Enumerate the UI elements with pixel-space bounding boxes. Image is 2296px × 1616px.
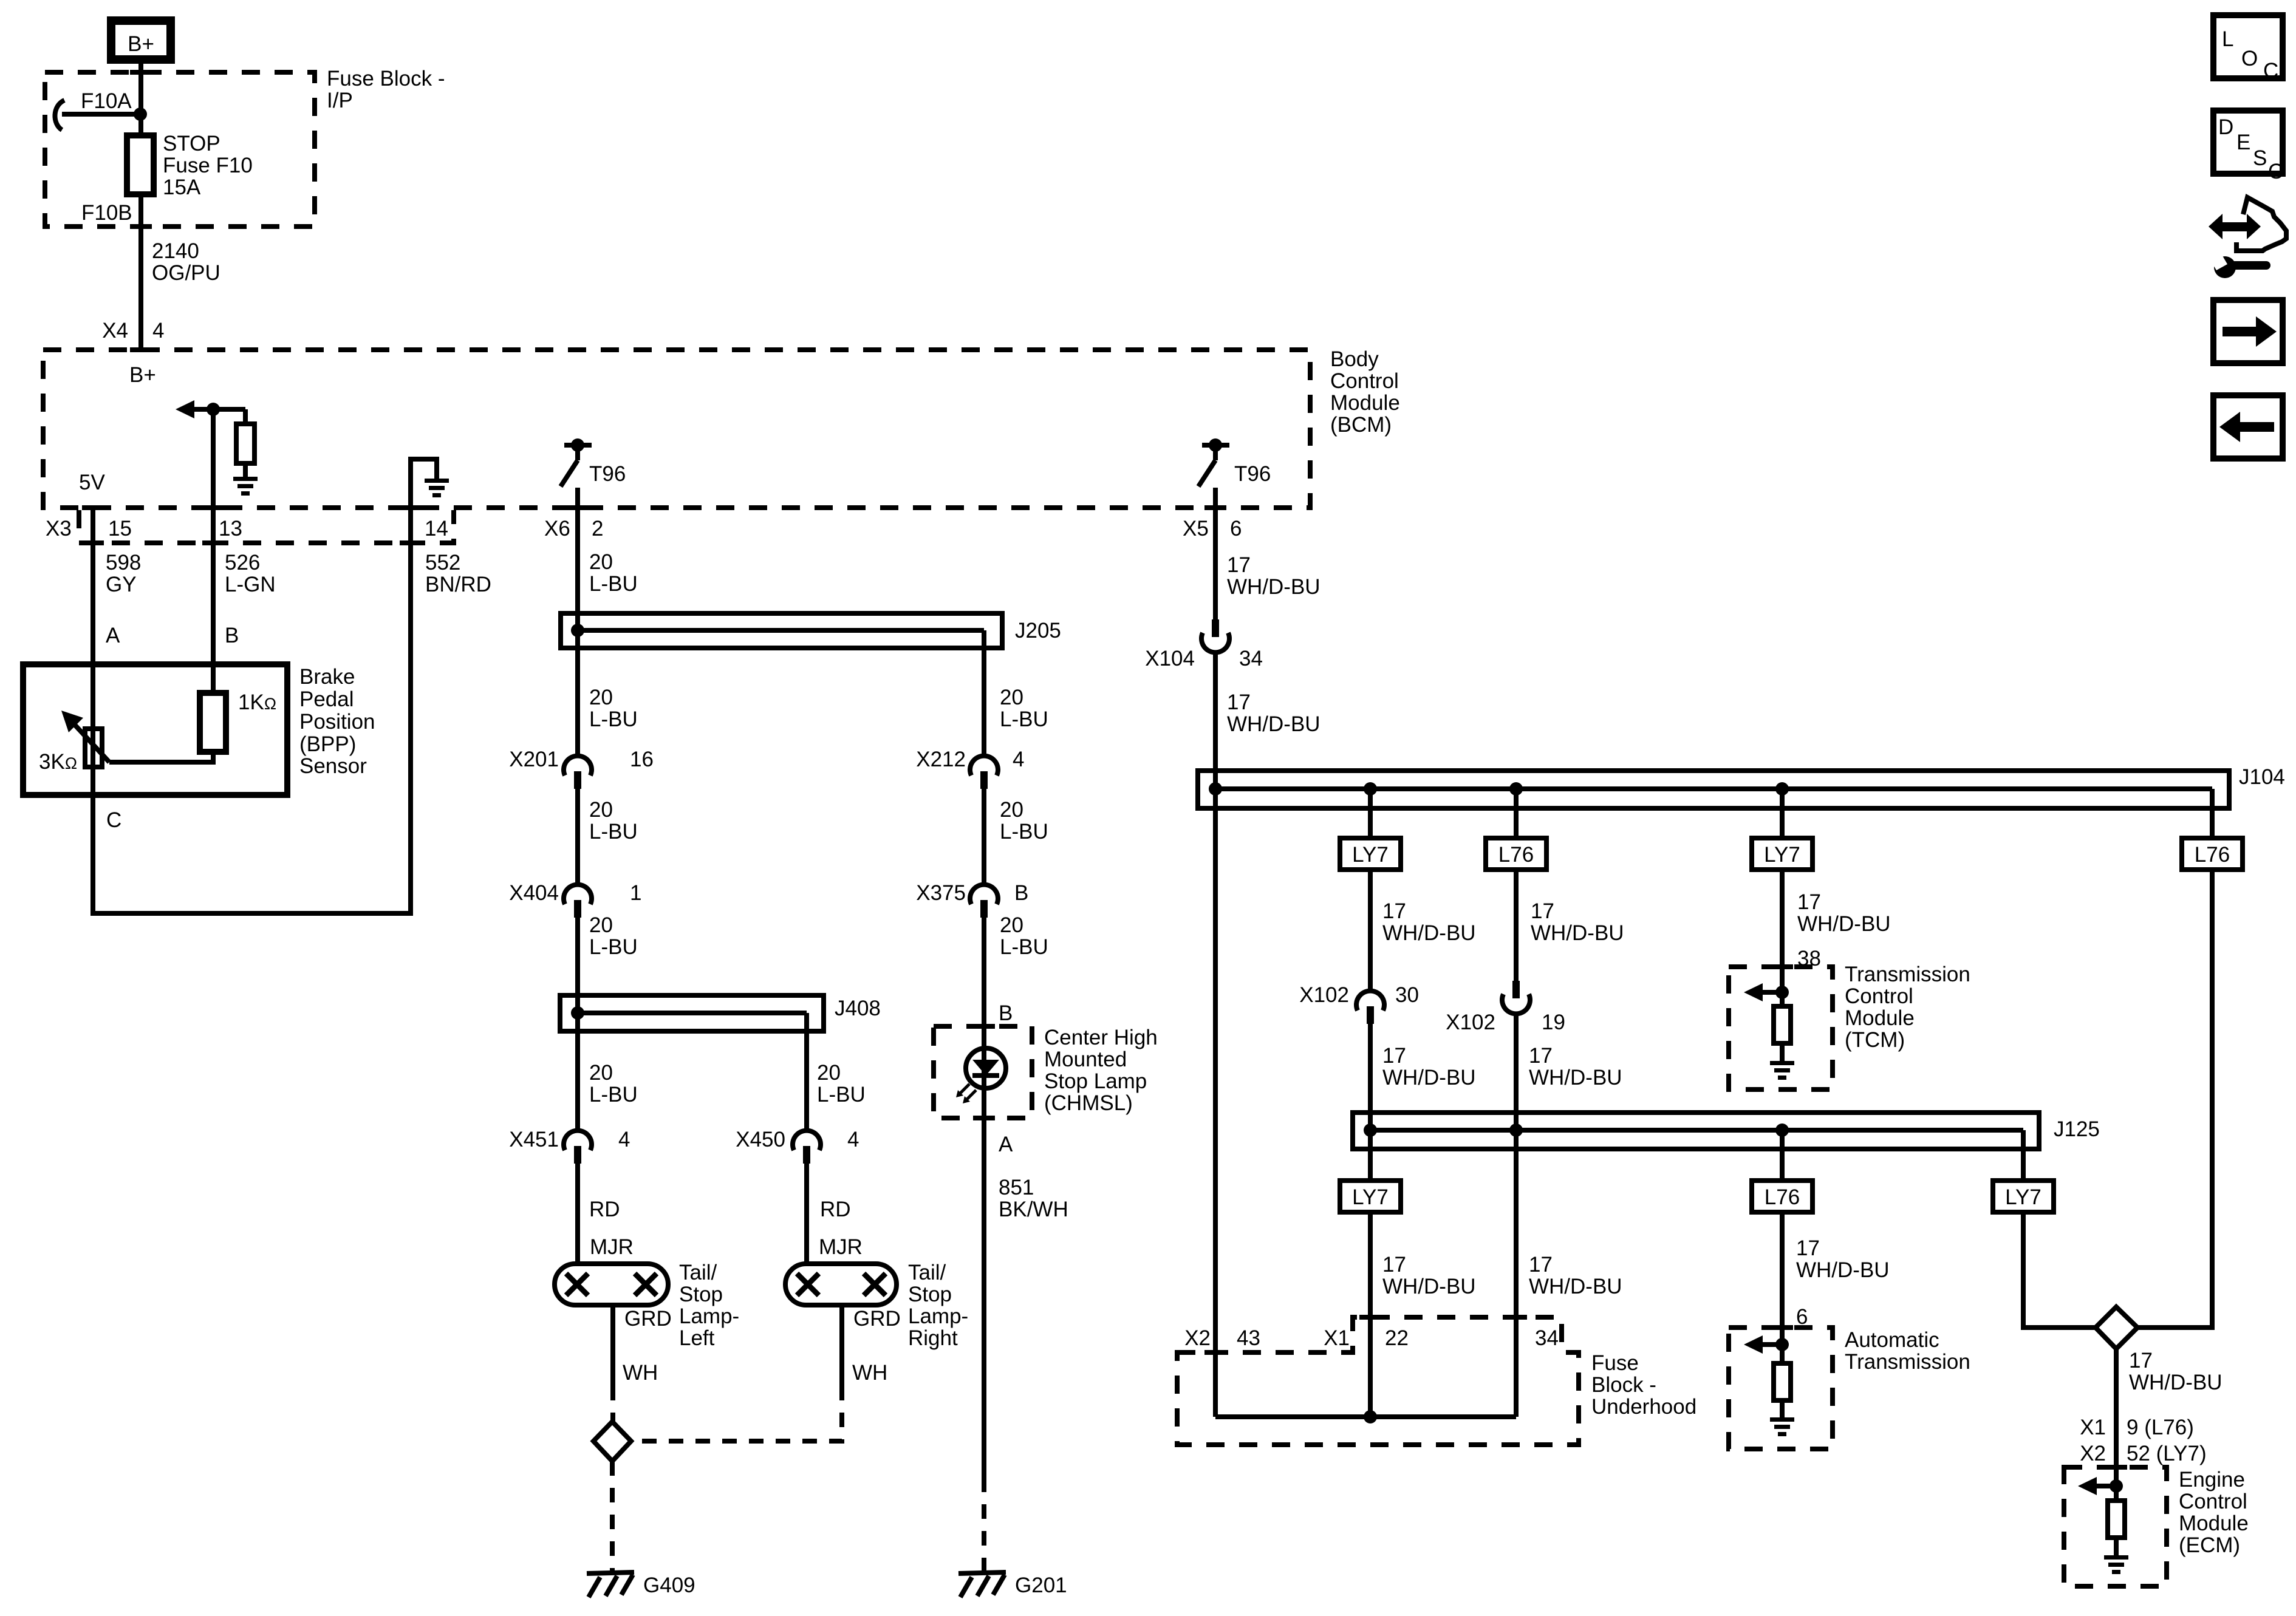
svg-text:J205: J205 [1015,619,1061,643]
splice pack J408 [560,995,824,1031]
junction inside automatic transmission [1775,1338,1789,1351]
label Fuse Block - I/P [327,67,445,112]
connector X3 dashed bracket [79,510,454,543]
wire label 17 WH/D-BU [1797,890,1891,936]
wire label 598 GY [106,551,141,596]
signal arrow inside ECM [2078,1477,2116,1495]
label Body Control Module (BCM) [1330,347,1400,437]
svg-text:851: 851 [999,1176,1034,1199]
svg-text:X451: X451 [509,1128,559,1151]
connector X102 pin 19 [1502,981,1530,1014]
tick dash at automatic transmission top border [1771,1325,1793,1330]
label X404 1 [509,881,641,905]
svg-text:Module: Module [2179,1512,2249,1535]
svg-text:C: C [2263,59,2278,83]
svg-text:L-GN: L-GN [225,573,276,596]
svg-text:J408: J408 [835,997,881,1020]
ground symbol inside BCM (pin13 circuit) [233,477,258,496]
label X450 4 [736,1128,859,1151]
svg-text:Center High: Center High [1044,1026,1158,1049]
connector label X1 pin 9 (L76) [2080,1416,2194,1439]
wire J125 to L76 automatic transmission [1780,1130,1785,1181]
svg-text:L-BU: L-BU [589,820,638,844]
connector X104 pin 34 [1201,619,1229,652]
connector label X6 pin 2 [544,517,603,540]
svg-text:15A: 15A [163,176,201,199]
tick dashes at BCM bottom border pins [82,505,1226,510]
wire WH left lamp ground [610,1305,615,1386]
ground symbol inside ECM [2104,1555,2128,1574]
wire diamond to ECM [2114,1349,2119,1501]
svg-text:F10B: F10B [81,201,132,225]
wire branch to other circuits (F10A feed) [62,112,140,117]
svg-text:17: 17 [1529,1253,1553,1277]
potentiometer 3K inside BPP [61,711,109,767]
connector label X5 pin 6 [1183,517,1242,540]
wire J104 to LY7 option [1368,789,1373,838]
tick dashes at fuse block underhood borders [1204,1315,1527,1355]
svg-text:X5: X5 [1183,517,1209,540]
svg-text:Engine: Engine [2179,1468,2245,1492]
svg-text:OG/PU: OG/PU [152,261,220,285]
svg-text:L-BU: L-BU [589,935,638,959]
svg-text:20: 20 [589,550,613,574]
svg-text:WH/D-BU: WH/D-BU [1529,1066,1622,1089]
DESC navigation icon box [2213,111,2283,183]
automatic transmission dashed box [1729,1328,1833,1449]
wire label 851 BK/WH [999,1176,1068,1221]
tail/stop lamp right (bulb symbol) [785,1264,897,1305]
svg-text:L76: L76 [2195,843,2230,867]
svg-text:43: 43 [1237,1326,1260,1350]
option box L76 [1486,838,1546,870]
wire X201 to X404 [575,789,580,887]
svg-text:Tail/: Tail/ [908,1261,946,1284]
svg-text:19: 19 [1542,1011,1565,1034]
svg-text:L-BU: L-BU [1000,707,1048,731]
resistor 1K inside BPP [200,693,226,752]
splice diamond G409 branch [593,1422,631,1461]
svg-text:X102: X102 [1299,983,1349,1007]
svg-text:17: 17 [1382,1044,1406,1068]
svg-text:17: 17 [1529,1044,1553,1068]
svg-text:B+: B+ [129,363,156,387]
ground symbol inside BCM (pin14 circuit) [425,479,449,497]
svg-text:Lamp-: Lamp- [908,1304,968,1328]
wire pin13 (526 L-GN) BCM to BPP resistor [211,409,216,693]
wire label 20 L-BU [1000,798,1048,844]
svg-text:Stop: Stop [908,1283,952,1306]
svg-text:Transmission: Transmission [1845,1350,1970,1374]
svg-text:(BCM): (BCM) [1330,413,1392,437]
pull-up resistor inside BCM [236,409,255,477]
svg-text:Brake: Brake [299,665,355,689]
tick dashes at X3 bracket wire crossings [82,540,422,545]
wire LY7 to X102-30 [1368,870,1373,993]
svg-text:Tail/: Tail/ [679,1261,717,1284]
svg-text:E: E [2236,131,2250,154]
svg-text:34: 34 [1535,1326,1559,1350]
svg-text:D: D [2218,115,2233,139]
connector X450 pin 4 [793,1131,821,1164]
connector label X2 pin 52 (LY7) [2080,1442,2206,1465]
resistor inside ECM [2108,1501,2125,1555]
svg-text:17: 17 [1227,690,1251,714]
wire label 17 WH/D-BU [1531,899,1624,945]
fuse block I/P dashed box [45,72,315,227]
wire label 20 L-BU below J408 left [589,1061,638,1106]
label Engine Control Module (ECM) [2179,1468,2249,1557]
svg-text:BN/RD: BN/RD [425,573,491,596]
svg-text:17: 17 [1796,1236,1820,1260]
svg-text:15: 15 [108,517,132,540]
svg-text:WH/D-BU: WH/D-BU [1227,575,1321,599]
svg-text:Fuse F10: Fuse F10 [163,154,253,177]
svg-text:LY7: LY7 [1352,843,1389,867]
svg-text:G201: G201 [1015,1573,1067,1597]
junction inside ECM [2110,1479,2123,1493]
resistor inside TCM [1774,1006,1791,1061]
wire B+ to BCM pin X4-4 [138,60,143,350]
svg-text:17: 17 [1382,899,1406,923]
svg-text:RD: RD [820,1198,851,1221]
svg-text:2140: 2140 [152,239,199,263]
svg-text:WH/D-BU: WH/D-BU [1382,1275,1476,1298]
svg-text:WH/D-BU: WH/D-BU [1529,1275,1622,1298]
svg-text:L-BU: L-BU [589,707,638,731]
svg-text:Module: Module [1845,1006,1915,1030]
svg-text:GY: GY [106,573,137,596]
svg-text:B+: B+ [128,32,154,56]
svg-text:MJR: MJR [590,1235,634,1259]
wire X212 to X375 [982,789,986,887]
wire label 20 L-BU below J408 right [817,1061,866,1106]
option box L76 below J125 [1752,1181,1813,1212]
wire J104 to L76 option [1514,789,1519,838]
svg-text:X1: X1 [1324,1326,1350,1350]
bus bar inside fuse block underhood [1215,1414,1516,1419]
resistor inside automatic transmission [1774,1363,1791,1417]
svg-text:L-BU: L-BU [1000,820,1048,844]
svg-text:20: 20 [1000,913,1023,937]
label X451 4 [509,1128,630,1151]
label X375 B [916,881,1028,905]
wire L76 right to splice diamond [2137,870,2212,1328]
svg-text:T96: T96 [1234,462,1271,486]
svg-text:X1: X1 [2080,1416,2106,1439]
wire L76 to automatic transmission [1780,1212,1785,1363]
svg-text:Stop: Stop [679,1283,723,1306]
svg-text:20: 20 [817,1061,841,1085]
junction on fuse block bus [1364,1410,1377,1423]
svg-text:B: B [225,624,239,647]
label X102 30 [1299,983,1419,1007]
svg-text:X2: X2 [1184,1326,1211,1350]
label Transmission Control Module (TCM) [1845,963,1970,1052]
svg-text:20: 20 [589,913,613,937]
svg-text:Pedal: Pedal [299,687,354,711]
label X102 19 [1446,1011,1565,1034]
ground symbol inside automatic transmission [1770,1417,1794,1436]
svg-text:(TCM): (TCM) [1845,1028,1905,1052]
svg-text:J125: J125 [2054,1117,2100,1141]
wire X102-19 through J125 to fuse block [1514,1012,1519,1417]
wire LY7 to splice diamond [2023,1212,2096,1328]
svg-text:Sensor: Sensor [299,754,367,778]
svg-text:Transmission: Transmission [1845,963,1970,986]
option box LY7 right [1993,1181,2054,1212]
svg-text:Control: Control [1845,984,1913,1008]
wire RD to right lamp [804,1164,809,1264]
junction inside TCM [1775,986,1789,999]
signal arrow inside automatic transmission [1744,1335,1782,1354]
wire label 17 WH/D-BU [1529,1044,1622,1089]
svg-text:6: 6 [1230,517,1242,540]
engine control module ECM dashed box [2064,1467,2167,1586]
center high mounted stop lamp CHMSL dashed box [934,1026,1032,1118]
wire label 2140 OG/PU [152,239,220,285]
svg-text:J104: J104 [2239,765,2285,789]
svg-text:C: C [106,808,121,832]
connector X375 pin B [970,885,998,918]
svg-text:L76: L76 [1765,1185,1800,1209]
wire label 20 L-BU [589,798,638,844]
svg-text:9 (L76): 9 (L76) [2127,1416,2194,1439]
ground symbol inside TCM [1770,1061,1794,1080]
svg-text:LY7: LY7 [1352,1185,1389,1209]
label Center High Mounted Stop Lamp (CHMSL) [1044,1026,1158,1115]
right-arrow navigation icon box [2213,300,2283,363]
switch T96 left (brake apply switch in BCM) [561,438,592,486]
wire wiper link 1K to pot [109,752,213,762]
svg-text:A: A [999,1133,1013,1156]
svg-text:WH/D-BU: WH/D-BU [1227,712,1321,736]
svg-text:RD: RD [589,1198,620,1221]
wire LY7 to fuse block pin 22 [1368,1212,1373,1417]
connector X102 pin 30 [1356,991,1384,1024]
svg-text:WH/D-BU: WH/D-BU [1797,912,1891,936]
wire 552 pin14 above bracket [408,508,413,543]
svg-text:17: 17 [1531,899,1554,923]
svg-text:X450: X450 [736,1128,785,1151]
wire pin14 ground link inside BCM [411,459,437,508]
splice pack J205 [561,613,1002,648]
svg-text:4: 4 [152,319,164,343]
svg-text:4: 4 [618,1128,630,1151]
svg-text:A: A [106,624,120,647]
fuse block underhood dashed box [1177,1317,1579,1445]
ground G201 [958,1572,1006,1597]
dashed wire diamond to G409 [610,1461,615,1570]
svg-text:C: C [2268,160,2283,183]
wire label 17 WH/D-BU [1796,1236,1890,1282]
svg-text:WH: WH [852,1361,887,1385]
svg-text:Right: Right [908,1326,958,1350]
wire 598 GY pin15 to BPP A [91,508,95,664]
body control module BCM dashed box [43,350,1310,508]
svg-text:Stop Lamp: Stop Lamp [1044,1069,1147,1093]
wire label 17 WH/D-BU [1227,690,1321,736]
svg-text:14: 14 [425,517,448,540]
wire J104 right exit to L76 [2210,789,2215,838]
connector X201 pin 16 [564,756,592,789]
option box LY7 [1340,838,1401,870]
dashed wire to splice diamond [610,1386,615,1422]
svg-text:I/P: I/P [327,89,353,112]
wire label 20 L-BU [589,550,638,596]
splice pack J104 [1198,771,2229,808]
wire label 552 BN/RD [425,551,491,596]
connector X404 pin 1 [564,885,592,918]
wire X375 to CHMSL and down [982,918,986,1478]
vehicle connector-view icon (double arrow + car outline) [2209,197,2286,253]
svg-text:F10A: F10A [81,89,132,113]
svg-text:(BPP): (BPP) [299,732,356,756]
svg-text:598: 598 [106,551,141,574]
svg-text:20: 20 [589,798,613,822]
svg-text:GRD: GRD [853,1307,901,1331]
wire label 17 WH/D-BU pin34 [1529,1253,1622,1298]
svg-text:WH/D-BU: WH/D-BU [1531,921,1624,945]
tick dash at TCM top border [1771,964,1793,969]
label Tail/Stop Lamp-Left [679,1261,739,1350]
option box LY7 TCM branch [1752,838,1813,870]
wire label 17 WH/D-BU [1382,1044,1476,1089]
dashed wire right lamp to diamond [631,1386,842,1441]
connector label X2 pin 43 [1184,1326,1260,1350]
svg-text:WH/D-BU: WH/D-BU [1796,1258,1890,1282]
svg-text:B: B [999,1001,1013,1025]
signal arrow inside BCM [176,400,245,418]
svg-text:Module: Module [1330,391,1400,415]
svg-text:X375: X375 [916,881,966,905]
wire label 17 WH/D-BU [1382,1253,1476,1298]
tick dash at BCM top border X4 [130,347,152,352]
label STOP Fuse F10 15A [163,132,253,199]
svg-text:52 (LY7): 52 (LY7) [2127,1442,2207,1465]
junction pin13 branch [207,403,220,416]
svg-text:1: 1 [630,881,641,905]
svg-text:S: S [2253,146,2267,170]
label Tail/Stop Lamp-Right [908,1261,968,1350]
wire X102-30 through J125 to LY7 [1368,1024,1373,1181]
ground G409 [587,1572,634,1597]
tick dash at ECM top border [2105,1465,2127,1470]
wire label 20 L-BU [589,913,638,959]
svg-text:526: 526 [225,551,260,574]
svg-text:LY7: LY7 [2005,1185,2041,1209]
signal arrow inside TCM [1744,983,1782,1001]
svg-text:13: 13 [219,517,242,540]
svg-text:X3: X3 [46,517,72,540]
fuse F10 symbol [127,135,154,194]
svg-text:5V: 5V [79,471,105,494]
label X104 34 [1145,647,1263,670]
svg-text:X4: X4 [102,319,128,343]
dashed wire to G201 [982,1478,986,1570]
tick dashes at CHMSL borders [973,1024,995,1120]
svg-text:20: 20 [1000,686,1023,709]
svg-text:17: 17 [1797,890,1821,914]
tick dash at fuse block top border [130,70,152,75]
wire X404 to J408 and X451 [575,918,580,1133]
node B+ (battery feed box) [111,21,171,60]
svg-text:Left: Left [679,1326,715,1350]
svg-text:L: L [2222,27,2233,51]
svg-text:Control: Control [2179,1490,2247,1513]
svg-text:16: 16 [630,748,654,771]
svg-text:4: 4 [1013,748,1024,771]
brake pedal position BPP sensor box [23,664,287,795]
svg-text:L-BU: L-BU [589,1083,638,1106]
wire WH right lamp ground [839,1305,844,1386]
label Automatic Transmission [1845,1328,1970,1374]
wire J125 right exit to LY7 [2021,1130,2026,1181]
wire label 17 WH/D-BU [1227,553,1321,599]
connector X212 pin 4 [970,756,998,789]
svg-text:552: 552 [425,551,460,574]
svg-text:Body: Body [1330,347,1379,371]
connector X451 pin 4 [564,1131,592,1164]
wire C loop to pin14 (552 BN/RD) [93,543,411,913]
option box LY7 below J125 [1340,1181,1401,1212]
wire J408 right branch to X450 [804,1013,809,1133]
svg-text:X212: X212 [916,748,966,771]
svg-text:GRD: GRD [624,1307,672,1331]
LOC navigation icon box [2213,15,2283,83]
svg-text:L-BU: L-BU [1000,935,1048,959]
wire label 17 WH/D-BU [1382,899,1476,945]
wire 598 through pot to C [91,664,95,795]
tick dash at fuse block bottom border [130,224,152,229]
svg-text:17: 17 [1382,1253,1406,1277]
svg-text:Position: Position [299,710,375,734]
switch T96 right (in BCM) [1198,438,1229,486]
svg-text:Fuse Block -: Fuse Block - [327,67,445,90]
svg-text:O: O [2241,47,2258,70]
svg-text:WH/D-BU: WH/D-BU [1382,921,1476,945]
svg-text:WH: WH [623,1361,658,1385]
wire label 17 WH/D-BU [2129,1349,2223,1394]
wire label 526 L-GN [225,551,276,596]
svg-text:L-BU: L-BU [817,1083,866,1106]
tail/stop lamp left (bulb symbol) [555,1264,668,1305]
wire LY7 to TCM [1780,870,1785,1006]
svg-text:Block -: Block - [1591,1373,1656,1397]
svg-text:20: 20 [589,1061,613,1085]
svg-text:(CHMSL): (CHMSL) [1044,1091,1133,1115]
wire RD to left lamp [575,1164,580,1264]
junction at F10A branch [134,107,147,121]
svg-text:30: 30 [1395,983,1419,1007]
svg-text:X102: X102 [1446,1011,1495,1034]
continuation hook symbol [55,100,64,130]
svg-text:X6: X6 [544,517,570,540]
svg-text:Lamp-: Lamp- [679,1304,739,1328]
label Brake Pedal Position (BPP) Sensor [299,665,375,778]
wire X5-6 to X104 [1213,488,1218,619]
svg-text:MJR: MJR [819,1235,863,1259]
svg-text:4: 4 [847,1128,859,1151]
svg-text:X104: X104 [1145,647,1195,670]
svg-text:(ECM): (ECM) [2179,1533,2240,1557]
svg-text:Automatic: Automatic [1845,1328,1939,1352]
connector label X1 pins 22 34 [1324,1326,1559,1350]
svg-text:22: 22 [1385,1326,1409,1350]
label Fuse Block - Underhood [1591,1351,1696,1419]
svg-text:20: 20 [1000,798,1023,822]
svg-text:BK/WH: BK/WH [999,1198,1068,1221]
